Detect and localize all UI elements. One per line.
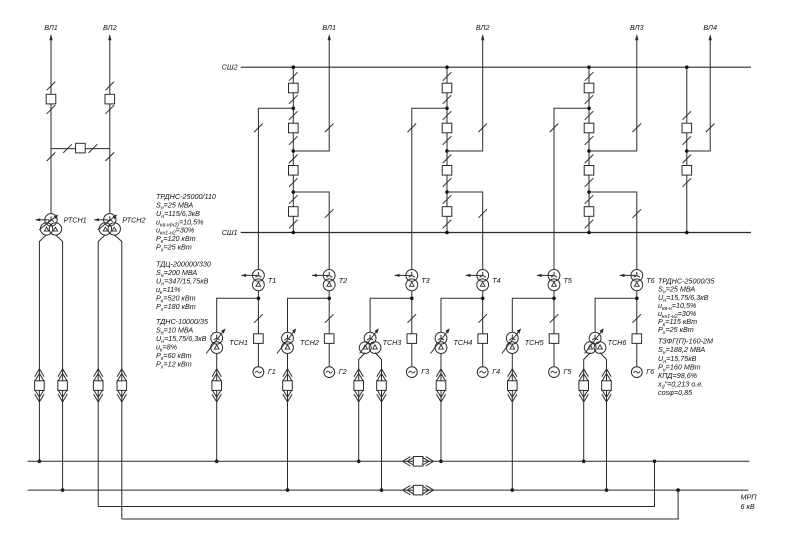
transformer ТСН3 xyxy=(359,328,381,353)
wire chain 4 vertical xyxy=(686,67,688,232)
bus СШ1 xyxy=(241,232,751,234)
label ТСН6 xyxy=(608,338,627,347)
svg-text:Г4: Г4 xyxy=(492,367,500,376)
node ТСН6-2 on 6kV bus 2 xyxy=(605,488,609,492)
disconnector QS generator Г2 xyxy=(325,314,334,323)
label Т6 xyxy=(646,276,654,285)
disconnector QS chain 2.6 xyxy=(443,178,452,187)
disconnector QS chain 3.2 xyxy=(585,95,594,104)
svg-text:ТСН6: ТСН6 xyxy=(608,338,627,347)
disconnector QS chain 3.4 xyxy=(585,136,594,145)
generator Г4 xyxy=(477,367,488,378)
wire РТСН1 winding 2 to bus xyxy=(55,235,62,490)
breaker Q chain 3.1 xyxy=(584,83,594,93)
node ТСН4 on 6kV bus 1 xyxy=(439,460,443,464)
transformer Т4 xyxy=(465,270,488,291)
label Т4 xyxy=(492,276,500,285)
wire unit 1 branch to ТСН1 xyxy=(217,298,259,332)
line ВЛ1 label xyxy=(322,23,336,32)
disconnector QS chain 2.7 xyxy=(443,195,452,204)
feeder switchgear cell ТСН6-1 xyxy=(579,369,589,402)
svg-text:Г3: Г3 xyxy=(421,367,429,376)
svg-text:ТСН3: ТСН3 xyxy=(383,338,402,347)
disconnector QS generator Г4 xyxy=(478,314,487,323)
line ВЛ2 label xyxy=(476,23,490,32)
generator Г5 xyxy=(549,367,560,378)
wire unit 4 branch to ТСН4 xyxy=(441,298,483,332)
disconnector QS chain 1.4 xyxy=(289,136,298,145)
svg-text:Т1: Т1 xyxy=(268,276,276,285)
wire drop to Т4 xyxy=(447,192,483,270)
label Г2 xyxy=(339,367,347,376)
disconnector QS chain 1.7 xyxy=(289,195,298,204)
wire chain 3 vertical xyxy=(588,67,590,232)
svg-text:СШ1: СШ1 xyxy=(222,228,238,237)
node chain 4 tap xyxy=(685,149,689,153)
label ТСН2 xyxy=(300,338,319,347)
feeder switchgear cell ТСН6-2 xyxy=(602,369,612,402)
value label Т1-Т6 spec ТДЦ-200000/330 xyxy=(156,260,211,313)
label ТСН4 xyxy=(454,338,473,347)
wire Т4 to generator branch xyxy=(482,291,484,367)
disconnector QS chain 2.8 xyxy=(443,220,452,229)
svg-text:ВЛ2: ВЛ2 xyxy=(103,23,117,32)
node chain 1 on СШ1 xyxy=(292,231,296,235)
line ВЛ2 arrow xyxy=(481,34,484,40)
label Г1 xyxy=(268,367,276,376)
label ТСН1 xyxy=(229,338,248,347)
bus sectionalizer cell on 6kV bus 1 xyxy=(403,457,434,467)
svg-text:Г1: Г1 xyxy=(268,367,276,376)
node chain 1 tap 3 xyxy=(292,190,296,194)
wire ВЛ1 riser xyxy=(293,39,329,151)
line ВЛ3 arrow xyxy=(635,34,638,40)
node ТСН2 on 6kV bus 2 xyxy=(286,488,290,492)
svg-text:Г2: Г2 xyxy=(339,367,347,376)
svg-text:cosφ=0,85: cosφ=0,85 xyxy=(658,388,693,397)
generator Г1 xyxy=(253,367,264,378)
breaker Q chain 1.1 xyxy=(289,83,299,93)
breaker Q generator Г3 xyxy=(407,334,417,344)
feeder switchgear cell РТСН1-2 xyxy=(58,369,68,402)
bus sectionalizer cell on 6kV bus 2 xyxy=(403,485,434,495)
wire unit 3 branch to ТСН3 xyxy=(370,298,412,332)
node ТСН5 on 6kV bus 2 xyxy=(511,488,515,492)
wire chain 1 vertical xyxy=(292,67,294,232)
transformer Т1 xyxy=(241,270,264,291)
wire ВЛ1 vertical xyxy=(50,39,52,214)
disconnector QS chain 1.5 xyxy=(289,155,298,164)
feeder switchgear cell ТСН4 xyxy=(436,369,446,402)
generator Г3 xyxy=(406,367,417,378)
svg-text:Т5: Т5 xyxy=(564,276,573,285)
transformer ТСН4 xyxy=(431,328,450,353)
wire drop to Т6 xyxy=(589,192,637,270)
wire unit 6 branch to ТСН6 xyxy=(595,298,637,332)
disconnector QS chain 3.8 xyxy=(585,220,594,229)
wire drop to Т3 xyxy=(412,108,447,269)
line ВЛ1 arrow xyxy=(328,34,331,40)
transformer ТСН2 xyxy=(277,328,296,353)
wire ВЛ3 riser xyxy=(589,39,637,151)
feeder switchgear cell ТСН3-1 xyxy=(354,369,364,402)
node unit 3 junction xyxy=(410,297,414,301)
disconnector QS chain 3.6 xyxy=(585,178,594,187)
disconnector QS on ВЛ1 below tie xyxy=(47,152,56,161)
transformer Т5 xyxy=(537,270,560,291)
wire ТСН1 to bus xyxy=(216,353,218,461)
node chain 2 on СШ1 xyxy=(445,231,449,235)
label ТСН3 xyxy=(383,338,402,347)
svg-text:6 кВ: 6 кВ xyxy=(741,502,755,511)
breaker Q generator Г5 xyxy=(549,334,559,344)
node ТСН6-1 on 6kV bus 1 xyxy=(582,460,586,464)
generator Г2 xyxy=(324,367,335,378)
feeder switchgear cell ТСН1 xyxy=(212,369,222,402)
wire Т6 to generator branch xyxy=(636,291,638,367)
disconnector QS chain 2.1 xyxy=(443,72,452,81)
disconnector QS on Т3 drop xyxy=(408,124,417,133)
disconnector QS generator Г1 xyxy=(254,314,263,323)
transformer Т2 xyxy=(312,270,335,291)
node chain 4 on СШ2 xyxy=(685,65,689,69)
breaker Q generator Г1 xyxy=(254,334,264,344)
line ВЛ3 label xyxy=(630,23,644,32)
feeder switchgear cell РТСН1-1 xyxy=(35,369,45,402)
breaker Q chain 1.2 xyxy=(289,123,299,133)
wire Т3 to generator branch xyxy=(411,291,413,367)
disconnector QS chain 3.3 xyxy=(585,111,594,120)
wire ТСН4 to bus xyxy=(440,353,442,461)
bus 6kV section 2 xyxy=(28,489,749,491)
node chain 1 tap 1 xyxy=(292,107,296,111)
transformer ТСН6 xyxy=(584,328,606,353)
wire ТСН6 winding 2 to bus xyxy=(600,353,607,491)
breaker Q chain 3.4 xyxy=(584,207,594,217)
breaker Q chain 2.3 xyxy=(442,166,452,176)
disconnector QS on Т5 drop xyxy=(550,124,559,133)
wire Т1 to generator branch xyxy=(257,291,259,367)
wire Т2 to generator branch xyxy=(328,291,330,367)
breaker Q generator Г2 xyxy=(324,334,334,344)
disconnector QS chain 2.2 xyxy=(443,95,452,104)
wire drop to Т5 xyxy=(554,108,589,269)
value label ТСН spec ТДНС-10000/35 xyxy=(156,317,209,370)
value label РТСН spec ТРДНС-25000/110 xyxy=(156,192,216,253)
breaker Q generator Г4 xyxy=(478,334,488,344)
disconnector QS generator Г3 xyxy=(408,314,417,323)
svg-text:Т4: Т4 xyxy=(492,276,500,285)
wire reserve line 2 xyxy=(122,490,678,519)
line ВЛ4 label xyxy=(703,23,717,32)
disconnector QS chain 1.6 xyxy=(289,178,298,187)
label РТСН2 xyxy=(122,215,145,224)
label Г4 xyxy=(492,367,500,376)
disconnector QS tie left xyxy=(63,144,72,153)
wire drop to Т2 xyxy=(293,192,329,270)
node reserve line 1 on 6kV bus 1 xyxy=(653,460,657,464)
label Т3 xyxy=(421,276,429,285)
wire ТСН3 winding 2 to bus xyxy=(375,353,382,491)
bus СШ1 label xyxy=(222,228,238,237)
transformer РТСН1 xyxy=(35,214,62,235)
node ТСН3-2 on 6kV bus 2 xyxy=(380,488,384,492)
feeder switchgear cell ТСН2 xyxy=(283,369,293,402)
transformer ТСН5 xyxy=(502,328,521,353)
disconnector QS chain 4 xyxy=(683,178,692,187)
svg-text:ВЛ2: ВЛ2 xyxy=(476,23,490,32)
disconnector QS generator Г6 xyxy=(633,314,642,323)
breaker Q chain 1.3 xyxy=(289,166,299,176)
disconnector QS on ВЛ4 xyxy=(706,124,715,133)
disconnector QS on ВЛ2 below tie xyxy=(106,152,115,161)
wire ТСН5 to bus xyxy=(511,353,513,490)
net МРП 6 кВ label xyxy=(741,493,758,512)
transformer РТСН2 xyxy=(94,214,121,235)
wire unit 5 branch to ТСН5 xyxy=(512,298,554,332)
breaker Q chain 1.4 xyxy=(289,207,299,217)
line ВЛ2 arrow xyxy=(108,34,111,40)
node chain 2 tap 3 xyxy=(445,190,449,194)
svg-text:ТСН5: ТСН5 xyxy=(525,338,545,347)
svg-text:Т2: Т2 xyxy=(339,276,347,285)
label Т5 xyxy=(564,276,573,285)
disconnector QS chain 2.4 xyxy=(443,136,452,145)
disconnector QS on ВЛ2 below breaker xyxy=(106,105,115,114)
label Г5 xyxy=(564,367,573,376)
breaker Q on ВЛ1 xyxy=(46,94,56,104)
svg-text:Т6: Т6 xyxy=(646,276,654,285)
disconnector QS chain 1.1 xyxy=(289,72,298,81)
svg-text:Г5: Г5 xyxy=(564,367,573,376)
value label ТСН3/6 spec ТРДНС-25000/35 xyxy=(658,277,715,336)
disconnector QS on ВЛ2 above breaker xyxy=(106,82,115,91)
disconnector QS tie right xyxy=(89,144,98,153)
breaker Q tie xyxy=(76,143,86,153)
node unit 2 junction xyxy=(327,297,331,301)
svg-text:ВЛ1: ВЛ1 xyxy=(44,23,58,32)
svg-text:ТСН2: ТСН2 xyxy=(300,338,319,347)
node ТСН3-1 on 6kV bus 1 xyxy=(357,460,361,464)
wire ВЛ4 riser xyxy=(687,39,710,151)
label Т2 xyxy=(339,276,347,285)
breaker Q on ВЛ2 xyxy=(105,94,115,104)
node chain 1 on СШ2 xyxy=(292,65,296,69)
line ВЛ4 arrow xyxy=(709,34,712,40)
node chain 3 tap 3 xyxy=(587,190,591,194)
svg-text:РТСН1: РТСН1 xyxy=(64,215,87,224)
node chain 4 on СШ1 xyxy=(685,231,689,235)
disconnector QS chain 3.7 xyxy=(585,195,594,204)
svg-text:СШ2: СШ2 xyxy=(222,63,238,72)
label Г6 xyxy=(646,367,654,376)
disconnector QS chain 2.3 xyxy=(443,111,452,120)
svg-text:Т3: Т3 xyxy=(421,276,429,285)
transformer Т6 xyxy=(619,270,642,291)
breaker Q chain 2.2 xyxy=(442,123,452,133)
svg-text:РТСН2: РТСН2 xyxy=(122,215,145,224)
disconnector QS chain 4 xyxy=(683,136,692,145)
node ТСН1 on 6kV bus 1 xyxy=(215,460,219,464)
disconnector QS chain 2.5 xyxy=(443,155,452,164)
svg-text:ВЛ3: ВЛ3 xyxy=(630,23,644,32)
node unit 1 junction xyxy=(257,297,261,301)
disconnector QS on ВЛ1 above breaker xyxy=(47,82,56,91)
node chain 3 on СШ2 xyxy=(587,65,591,69)
disconnector QS chain 4 xyxy=(683,111,692,120)
label ТСН5 xyxy=(525,338,545,347)
disconnector QS on ВЛ2 xyxy=(478,124,487,133)
wire ТСН3 winding 1 to bus xyxy=(359,353,366,462)
node chain 2 tap 1 xyxy=(445,107,449,111)
disconnector QS on ВЛ1 xyxy=(325,124,334,133)
breaker Q chain 2.1 xyxy=(442,83,452,93)
disconnector QS on ВЛ1 below breaker xyxy=(47,105,56,114)
wire ТСН6 winding 1 to bus xyxy=(584,353,591,462)
disconnector QS on Т1 drop xyxy=(254,124,263,133)
node РТСН1-1 on 6kV bus 1 xyxy=(38,460,42,464)
node unit 6 junction xyxy=(635,297,639,301)
wire drop to Т1 xyxy=(258,108,293,269)
node reserve line 2 on 6kV bus 2 xyxy=(676,488,680,492)
node chain 2 tap 2 xyxy=(445,149,449,153)
node chain 2 on СШ2 xyxy=(445,65,449,69)
wire ТСН2 to bus xyxy=(287,353,289,490)
disconnector QS on Т6 drop xyxy=(633,209,642,218)
bus 6kV section 1 xyxy=(28,460,750,462)
transformer ТСН1 xyxy=(206,328,225,353)
svg-text:Г6: Г6 xyxy=(646,367,654,376)
disconnector QS chain 1.3 xyxy=(289,111,298,120)
feeder switchgear cell ТСН3-2 xyxy=(377,369,387,402)
wire Т5 to generator branch xyxy=(553,291,555,367)
breaker Q chain 3.3 xyxy=(584,166,594,176)
disconnector QS generator Г5 xyxy=(550,314,559,323)
line ВЛ1 arrow xyxy=(49,34,52,40)
feeder switchgear cell РТСН2-1 xyxy=(93,369,103,402)
node chain 3 tap 1 xyxy=(587,107,591,111)
node unit 5 junction xyxy=(552,297,556,301)
feeder switchgear cell РТСН2-2 xyxy=(117,369,127,402)
wire reserve line 1 xyxy=(98,461,654,506)
line ВЛ2 (reserve supply) label xyxy=(103,23,117,32)
wire РТСН1 winding 1 to bus xyxy=(39,235,46,462)
wire ВЛ2 riser xyxy=(447,39,483,151)
bus СШ2 label xyxy=(222,63,238,72)
svg-text:ВЛ4: ВЛ4 xyxy=(703,23,717,32)
svg-text:ТСН4: ТСН4 xyxy=(454,338,473,347)
svg-text:ТСН1: ТСН1 xyxy=(229,338,248,347)
disconnector QS chain 3.1 xyxy=(585,72,594,81)
disconnector QS on ВЛ3 xyxy=(633,124,642,133)
svg-text:МРП: МРП xyxy=(741,493,758,502)
wire chain 2 vertical xyxy=(446,67,448,232)
label РТСН1 xyxy=(64,215,87,224)
transformer Т3 xyxy=(394,270,417,291)
disconnector QS chain 1.2 xyxy=(289,95,298,104)
wire РТСН2 winding 2 to reserve line 2 xyxy=(114,235,122,519)
bus СШ2 xyxy=(241,66,751,68)
disconnector QS chain 4 xyxy=(683,155,692,164)
line ВЛ1 (reserve supply) label xyxy=(44,23,58,32)
wire unit 2 branch to ТСН2 xyxy=(288,298,330,332)
breaker Q generator Г6 xyxy=(632,334,642,344)
breaker Q chain 2.4 xyxy=(442,207,452,217)
node chain 3 tap 2 xyxy=(587,149,591,153)
node РТСН1-2 on 6kV bus 2 xyxy=(61,488,65,492)
disconnector QS chain 1.8 xyxy=(289,220,298,229)
generator Г6 xyxy=(631,367,642,378)
disconnector QS chain 3.5 xyxy=(585,155,594,164)
disconnector QS on Т4 drop xyxy=(478,209,487,218)
wire ВЛ2 vertical xyxy=(109,39,111,214)
label Т1 xyxy=(268,276,276,285)
wire РТСН2 winding 1 to reserve line 1 xyxy=(98,235,105,507)
wire tie between reserve lines xyxy=(51,148,110,150)
breaker Q chain 3.2 xyxy=(584,123,594,133)
breaker Q chain 4 lower xyxy=(682,166,692,176)
node chain 3 on СШ1 xyxy=(587,231,591,235)
node chain 1 tap 2 xyxy=(292,149,296,153)
feeder switchgear cell ТСН5 xyxy=(508,369,518,402)
breaker Q chain 4 upper xyxy=(682,123,692,133)
node unit 4 junction xyxy=(481,297,485,301)
disconnector QS on Т2 drop xyxy=(325,209,334,218)
value label generator spec ТЗФГ(П)-160-2М xyxy=(657,337,713,398)
label Г3 xyxy=(421,367,429,376)
svg-text:ВЛ1: ВЛ1 xyxy=(322,23,336,32)
